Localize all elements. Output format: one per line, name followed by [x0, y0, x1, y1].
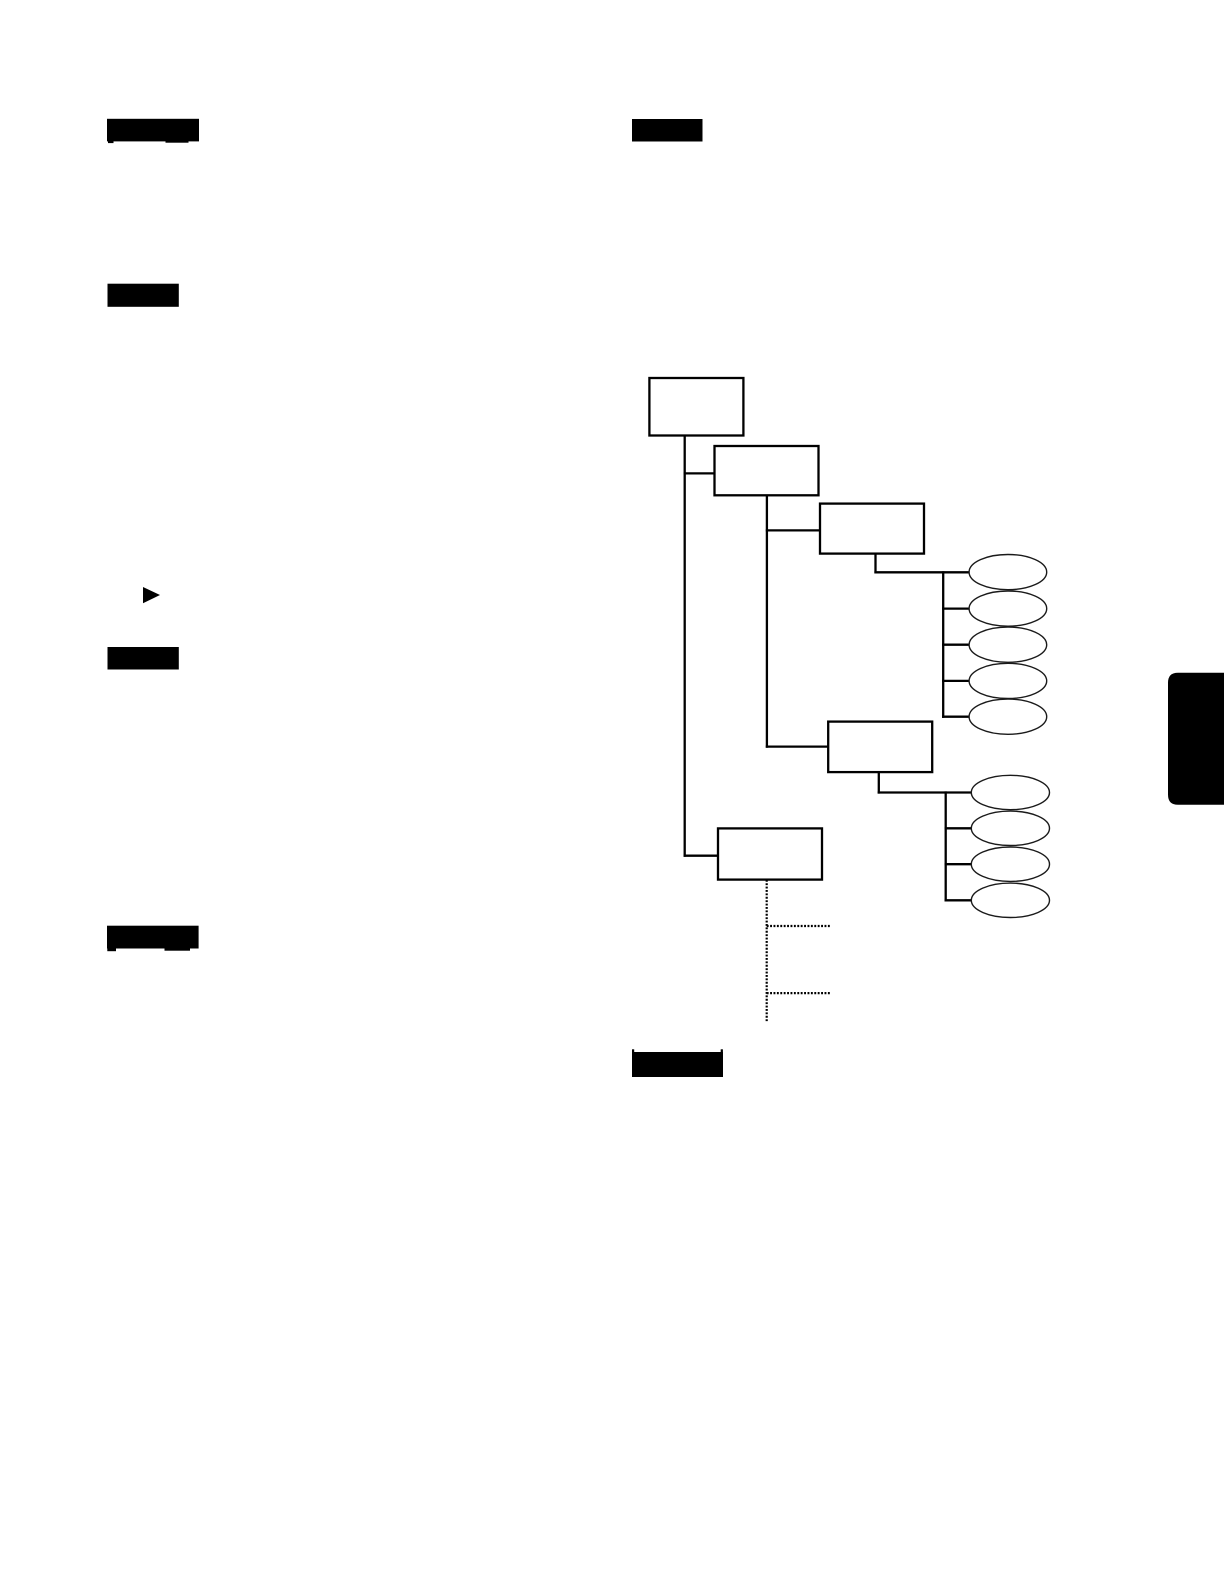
- ellipse 2-3: [971, 847, 1049, 881]
- tree connector: horizontal to ellipse group 2: [878, 791, 972, 793]
- tree connector: stem below box 4: [878, 772, 880, 794]
- tree connector: branch to box 5: [684, 855, 718, 857]
- tree box 5: [718, 828, 822, 879]
- tree connector: branch to box 3: [766, 529, 820, 531]
- redacted heading 5 (right column top): [632, 119, 703, 142]
- dotted stem below box 5: [766, 880, 768, 1022]
- tree box 3: [820, 504, 924, 554]
- tree connector: stub to ellipse 1-2: [942, 607, 969, 609]
- tree connector: branch to box 4: [766, 745, 828, 747]
- redacted heading 1 (left column): [107, 119, 199, 142]
- tree connector: stub to ellipse 1-3: [942, 644, 969, 646]
- tree connector: trunk from box 2: [766, 495, 768, 748]
- tree box 4: [828, 722, 932, 773]
- heading 4 underline segment: [165, 948, 191, 950]
- redacted heading 6 (right column bottom): [632, 1052, 723, 1077]
- tree box 1 (root): [649, 378, 743, 436]
- tree connector: stub to ellipse 1-4: [942, 680, 969, 682]
- ellipse 1-5: [969, 699, 1047, 734]
- ellipse 2-2: [971, 811, 1049, 845]
- tree box 2: [715, 446, 819, 495]
- tree connector: horizontal to ellipse group 1: [874, 571, 969, 573]
- dotted branch 1: [767, 925, 832, 927]
- heading 6 ascender tick left: [632, 1049, 634, 1052]
- redacted heading 4 (left column): [107, 926, 199, 949]
- ellipse 1-2: [969, 591, 1047, 626]
- tree connector: stem below box 3: [874, 554, 876, 574]
- ellipse 1-1: [969, 555, 1047, 590]
- ellipse 1-4: [969, 663, 1047, 698]
- heading 1 descender mark left: [108, 141, 114, 144]
- redacted heading 2 (left column): [108, 284, 179, 307]
- tree connector: stub to ellipse 2-4: [945, 899, 972, 901]
- play arrow bullet: [143, 587, 160, 603]
- heading 1 underline segment: [166, 141, 189, 143]
- ellipse 1-3: [969, 627, 1047, 662]
- tree connector: stub to ellipse 2-3: [945, 863, 972, 865]
- redacted heading 3 (left column): [108, 647, 179, 670]
- tree connector: bus for ellipse group 2: [945, 791, 947, 901]
- tree connector: trunk from box 1: [684, 435, 686, 857]
- right page-edge black tab: [1168, 673, 1224, 805]
- tree connector: branch to box 2: [684, 472, 715, 474]
- ellipse 2-4: [971, 883, 1049, 917]
- heading 6 ascender tick right: [721, 1049, 723, 1052]
- tree connector: bus for ellipse group 1: [942, 571, 944, 718]
- tree connector: stub to ellipse 2-2: [945, 827, 972, 829]
- dotted branch 2: [767, 992, 832, 994]
- tree connector: stub to ellipse 1-5: [942, 716, 969, 718]
- heading 4 descender mark left: [107, 948, 116, 951]
- ellipse 2-1: [971, 775, 1049, 809]
